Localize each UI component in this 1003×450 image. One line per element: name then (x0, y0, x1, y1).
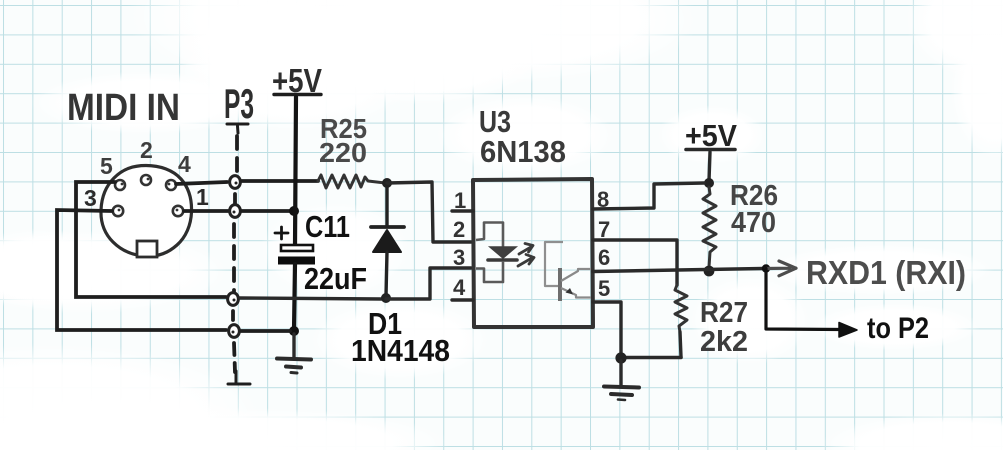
U3 phototransistor (545, 242, 591, 301)
wire: bottom line to U3 pin 3 (386, 268, 471, 299)
wire: junction to U3 pin 2 (387, 182, 471, 242)
node: C11 ground junction dot (289, 326, 299, 336)
P3 top tick (227, 124, 248, 133)
P3 connector pin (pin5 loop) (228, 293, 239, 306)
+5V rail underline (right) (686, 148, 735, 152)
node: RXD1 tap dot (762, 264, 770, 272)
U3 internal LED (476, 223, 517, 283)
wire: ground line right (621, 356, 681, 360)
svg-text:R27: R27 (700, 297, 748, 329)
node: right ground junction dot (615, 352, 626, 363)
DIN pin 3 (113, 206, 123, 216)
P3 dashed stem (middle) (232, 224, 236, 292)
capacitor C11 (275, 227, 315, 265)
wire: DIN pin3 loop to P3 bottom connector (57, 210, 226, 330)
wire: P3 bottom connector to ground node (241, 329, 290, 333)
svg-text:1: 1 (196, 184, 209, 210)
wire: U3 pin 7 to R27 (593, 240, 677, 285)
DIN pin 5 (115, 180, 125, 190)
U3 light arrows (518, 244, 534, 267)
+5V rail underline (left) (274, 93, 321, 96)
wire: C11 to ground node (294, 264, 295, 330)
svg-text:6: 6 (598, 245, 610, 270)
wire: +5V right down to node (709, 152, 710, 181)
svg-text:2: 2 (453, 217, 465, 242)
DIN pin 4 (166, 180, 176, 190)
svg-text:6N138: 6N138 (480, 134, 566, 169)
P3 dashed stem (lower) (231, 311, 235, 322)
diode D1 (371, 187, 404, 296)
ground symbol under C11 (277, 334, 311, 373)
node: D1 bottom junction dot (381, 293, 391, 303)
svg-text:2: 2 (140, 137, 153, 163)
svg-text:P3: P3 (224, 80, 254, 127)
ground symbol right (604, 361, 639, 400)
svg-text:to P2: to P2 (867, 312, 929, 345)
svg-text:1N4148: 1N4148 (351, 333, 450, 368)
resistor R27 (675, 285, 687, 332)
U3 pin 1 stub (452, 209, 473, 212)
P3 dashed stem (between) (233, 194, 237, 205)
wire: DIN pin4 to P3 (line A) (176, 182, 227, 184)
svg-text:MIDI IN: MIDI IN (67, 87, 180, 129)
arrow to P2 (839, 323, 857, 338)
P3 dashed stem (bottom) (234, 343, 235, 372)
wire: U3 pin 5 down to ground (593, 302, 621, 356)
svg-text:1: 1 (454, 188, 466, 213)
resistor R26 (703, 187, 716, 267)
wire: P3 to R25 (line A continues) (242, 179, 318, 183)
P3 bottom tick (228, 371, 250, 384)
wire: R27 bottom to ground line (680, 332, 681, 357)
wire: RXD1 tap down to P2 (766, 269, 842, 330)
svg-text:4: 4 (178, 151, 191, 177)
IC U3 body (473, 179, 593, 327)
svg-text:3: 3 (453, 245, 465, 270)
resistor R25 (318, 175, 385, 188)
U3 pin 4 stub (452, 298, 473, 301)
svg-text:5: 5 (598, 276, 610, 301)
wire: DIN pin5 loop to P3 lower connector (76, 182, 226, 297)
P3 connector pin (pin3 loop) (229, 325, 240, 338)
wire: U3 pin 8 to +5V node (593, 183, 704, 209)
DIN notch (137, 241, 157, 257)
wire: +5V down through node to C11 (295, 97, 296, 246)
svg-text:22uF: 22uF (304, 261, 367, 296)
svg-text:470: 470 (731, 207, 776, 239)
svg-text:5: 5 (100, 153, 113, 179)
node: +5V / R26 / pin8 junction dot (704, 178, 714, 188)
node: R25 / D1 / U3 pin2 junction dot (382, 178, 392, 188)
wire: U3 pin 6 / RXD1 line (593, 269, 763, 272)
svg-text:C11: C11 (305, 209, 350, 244)
P3 connector pin (line B) (230, 205, 241, 218)
node: line B / +5V / C11 junction dot (289, 206, 299, 216)
MIDI DIN-5 connector shell (101, 166, 192, 257)
P3 connector pin (line A) (230, 176, 241, 189)
P3 dashed stem (upper) (235, 136, 239, 174)
svg-text:7: 7 (598, 217, 610, 242)
wire: DIN pin1 to P3 (line B) (184, 209, 228, 213)
svg-text:4: 4 (453, 275, 466, 300)
RXD1 arrow (766, 261, 796, 276)
wire: pin5-loop line continues to D1 bottom (240, 298, 382, 299)
svg-text:RXD1 (RXI): RXD1 (RXI) (806, 254, 966, 291)
DIN pin 2 (141, 175, 151, 185)
svg-text:3: 3 (84, 185, 97, 211)
DIN pin 1 (173, 206, 183, 216)
wire: P3 to +5V/C11 node (line B continues) (242, 209, 292, 213)
node: R26 / pin6 / RXD1 junction dot (704, 266, 715, 277)
svg-text:2k2: 2k2 (700, 326, 748, 358)
svg-text:220: 220 (319, 137, 367, 168)
